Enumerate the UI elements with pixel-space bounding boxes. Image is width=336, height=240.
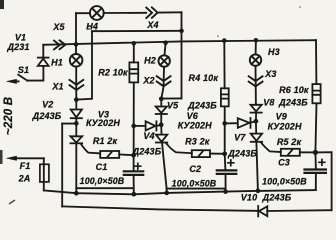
node R2/V4: [131, 124, 136, 129]
thyristor V9: [251, 121, 281, 152]
wire C1 minus link: [76, 187, 133, 189]
wire vertical x92 down to X1 node: [76, 31, 92, 99]
wire second horizontal: [92, 30, 182, 32]
wire vertical right of top branch down to V5 node: [181, 12, 183, 98]
svg-text:R6 10к: R6 10к: [279, 85, 309, 95]
svg-text:2A: 2A: [18, 173, 31, 183]
svg-text:Д243Б: Д243Б: [32, 111, 62, 121]
capacitor C1: [124, 171, 143, 175]
wire stub node to x62: [62, 123, 76, 125]
diode V10: [258, 206, 267, 216]
svg-text:100,0×50В: 100,0×50В: [172, 178, 217, 188]
wire V3 cathode down: [75, 143, 77, 193]
node bus-H2: [163, 40, 168, 45]
svg-text:Д243Б: Д243Б: [132, 147, 162, 157]
connector X4: [146, 7, 157, 18]
node junction at x181 y31: [179, 29, 184, 34]
thyristor V6: [156, 125, 192, 153]
wire R2 down through nodes to C1: [133, 82, 135, 170]
wire rail B left: [62, 206, 258, 211]
wire jog to x181: [161, 97, 181, 99]
node R5/R6/C3: [313, 150, 318, 155]
svg-text:R2 10к: R2 10к: [98, 68, 128, 78]
svg-text:КУ202Н: КУ202Н: [178, 121, 212, 131]
node V2/V3: [74, 121, 79, 126]
diode V8: [251, 105, 262, 121]
svg-text:~220 В: ~220 В: [3, 97, 15, 135]
svg-text:V7: V7: [234, 133, 246, 143]
node bus-H1: [74, 42, 79, 47]
resistor R4: [221, 88, 229, 106]
connector X2: [157, 76, 171, 86]
node bus-H3: [254, 38, 259, 43]
capacitor C2: [217, 170, 237, 174]
svg-text:R5 2к: R5 2к: [277, 137, 302, 147]
lamp H2: [159, 55, 170, 66]
resistor R5: [281, 149, 300, 156]
node R3/C2: [222, 151, 227, 156]
svg-text:R1 2к: R1 2к: [93, 136, 118, 146]
lamp H4: [90, 6, 104, 20]
wire bus right end down to R6: [315, 40, 317, 84]
wire bus to H2: [165, 43, 166, 56]
svg-text:КУ202Н: КУ202Н: [268, 121, 302, 131]
svg-text:V2: V2: [42, 100, 53, 110]
connector X5: [54, 40, 65, 49]
wire lamp H1 to X1 to node: [75, 67, 77, 100]
wire arrow to fuse: [43, 158, 45, 190]
plus C2: [228, 160, 234, 166]
svg-text:Д243Б: Д243Б: [227, 148, 257, 158]
wire R5 to node: [300, 151, 316, 153]
wire rail B right: [267, 209, 331, 212]
terminal arrow upper: [17, 80, 19, 82]
svg-text:S1: S1: [18, 65, 29, 75]
wire bus left end down to V1: [42, 45, 44, 58]
connector X3: [249, 76, 263, 86]
svg-text:H1: H1: [51, 58, 63, 68]
node V6 rail: [164, 191, 169, 196]
terminal arrow lower: [17, 157, 44, 159]
wire R6 down to node: [315, 103, 316, 152]
svg-text:X5: X5: [52, 22, 65, 32]
wire C1 bottom: [133, 175, 135, 194]
svg-text:X2: X2: [142, 76, 154, 86]
diode V4: [134, 121, 162, 130]
lamp H3: [250, 54, 261, 65]
node R1/C1: [131, 153, 136, 158]
node bus-R4: [222, 38, 227, 43]
plus C1: [135, 163, 141, 169]
wire main bus: [43, 40, 316, 45]
node X2/V5: [159, 96, 164, 101]
node V5/V6: [159, 122, 164, 127]
diode V1: [38, 58, 49, 66]
svg-text:V8: V8: [263, 98, 274, 108]
wire node to right edge and down: [315, 152, 331, 210]
wire bus to R4: [223, 41, 225, 89]
svg-text:Д243Б: Д243Б: [278, 97, 308, 107]
node X1/V2: [74, 97, 79, 102]
svg-text:C3: C3: [278, 158, 290, 168]
wire lamp H3 to X3 to V8: [255, 66, 257, 105]
fuse F1: [40, 164, 49, 182]
svg-text:X1: X1: [51, 82, 63, 92]
plus C3: [319, 160, 325, 166]
svg-text:V5: V5: [167, 101, 179, 111]
connector X1: [70, 80, 84, 90]
wire V6 cathode down: [162, 143, 167, 193]
capacitor C3: [305, 170, 326, 173]
node C1 rail: [131, 192, 136, 197]
node V3 rail: [74, 191, 79, 196]
node R4/V7: [222, 121, 227, 126]
wire rail A: [44, 190, 316, 194]
thyristor V3: [70, 124, 100, 154]
wire top branch H4/X4: [76, 11, 182, 14]
svg-text:V6: V6: [187, 111, 199, 121]
wire C2 minus link: [167, 188, 226, 190]
svg-text:КУ202Н: КУ202Н: [86, 118, 120, 128]
svg-text:R4 10к: R4 10к: [189, 73, 219, 83]
switch S1 blade: [18, 75, 27, 81]
resistor R3: [192, 150, 210, 157]
svg-text:X4: X4: [146, 20, 158, 30]
wire R4 down through nodes to C2: [224, 106, 227, 169]
wire lamp H2 to X2: [161, 67, 164, 99]
wire bus to R2: [133, 43, 135, 62]
wire left feedback vertical x62: [61, 124, 63, 207]
resistor R2: [129, 62, 138, 82]
wire R3 to vertical: [210, 153, 225, 155]
wire C2 bottom: [225, 174, 227, 192]
svg-text:C1: C1: [96, 162, 108, 172]
svg-text:R3 2к: R3 2к: [185, 136, 210, 146]
node V9 rail: [256, 189, 261, 194]
scan speck marks: [0, 0, 301, 204]
svg-text:X3: X3: [264, 69, 276, 79]
resistor R1: [100, 151, 119, 158]
wire bus to H3: [255, 40, 257, 54]
svg-text:C2: C2: [189, 164, 201, 174]
wire H1 column top: [75, 44, 77, 54]
resistor R6: [312, 84, 320, 103]
diode V5: [156, 99, 167, 125]
svg-text:Д231: Д231: [6, 42, 29, 52]
node bus-R2: [132, 41, 137, 46]
lamp H1: [70, 54, 83, 67]
diode V7: [225, 118, 256, 128]
wire C3 bottom to rail A end: [315, 173, 317, 190]
node V8/V9: [254, 119, 259, 124]
wire R1 to vertical: [119, 153, 133, 156]
wire V9 cathode down: [256, 142, 258, 191]
diode V2: [71, 100, 82, 124]
wire V1 to S1: [27, 66, 43, 80]
svg-text:100,0×50В: 100,0×50В: [80, 176, 125, 186]
svg-text:Д243Б: Д243Б: [262, 192, 292, 202]
svg-text:V4: V4: [143, 131, 154, 141]
wire C3 top lead: [314, 152, 317, 169]
svg-text:H2: H2: [144, 55, 156, 65]
svg-text:H4: H4: [86, 21, 98, 31]
node C2 rail: [223, 189, 228, 194]
svg-text:V9: V9: [276, 111, 287, 121]
svg-text:H3: H3: [268, 47, 280, 57]
svg-text:Д243Б: Д243Б: [187, 100, 217, 110]
wire vertical left of top branch: [75, 13, 77, 44]
svg-text:V10: V10: [241, 192, 257, 202]
svg-text:100,0×50В: 100,0×50В: [262, 177, 307, 187]
svg-text:F1: F1: [20, 161, 31, 171]
